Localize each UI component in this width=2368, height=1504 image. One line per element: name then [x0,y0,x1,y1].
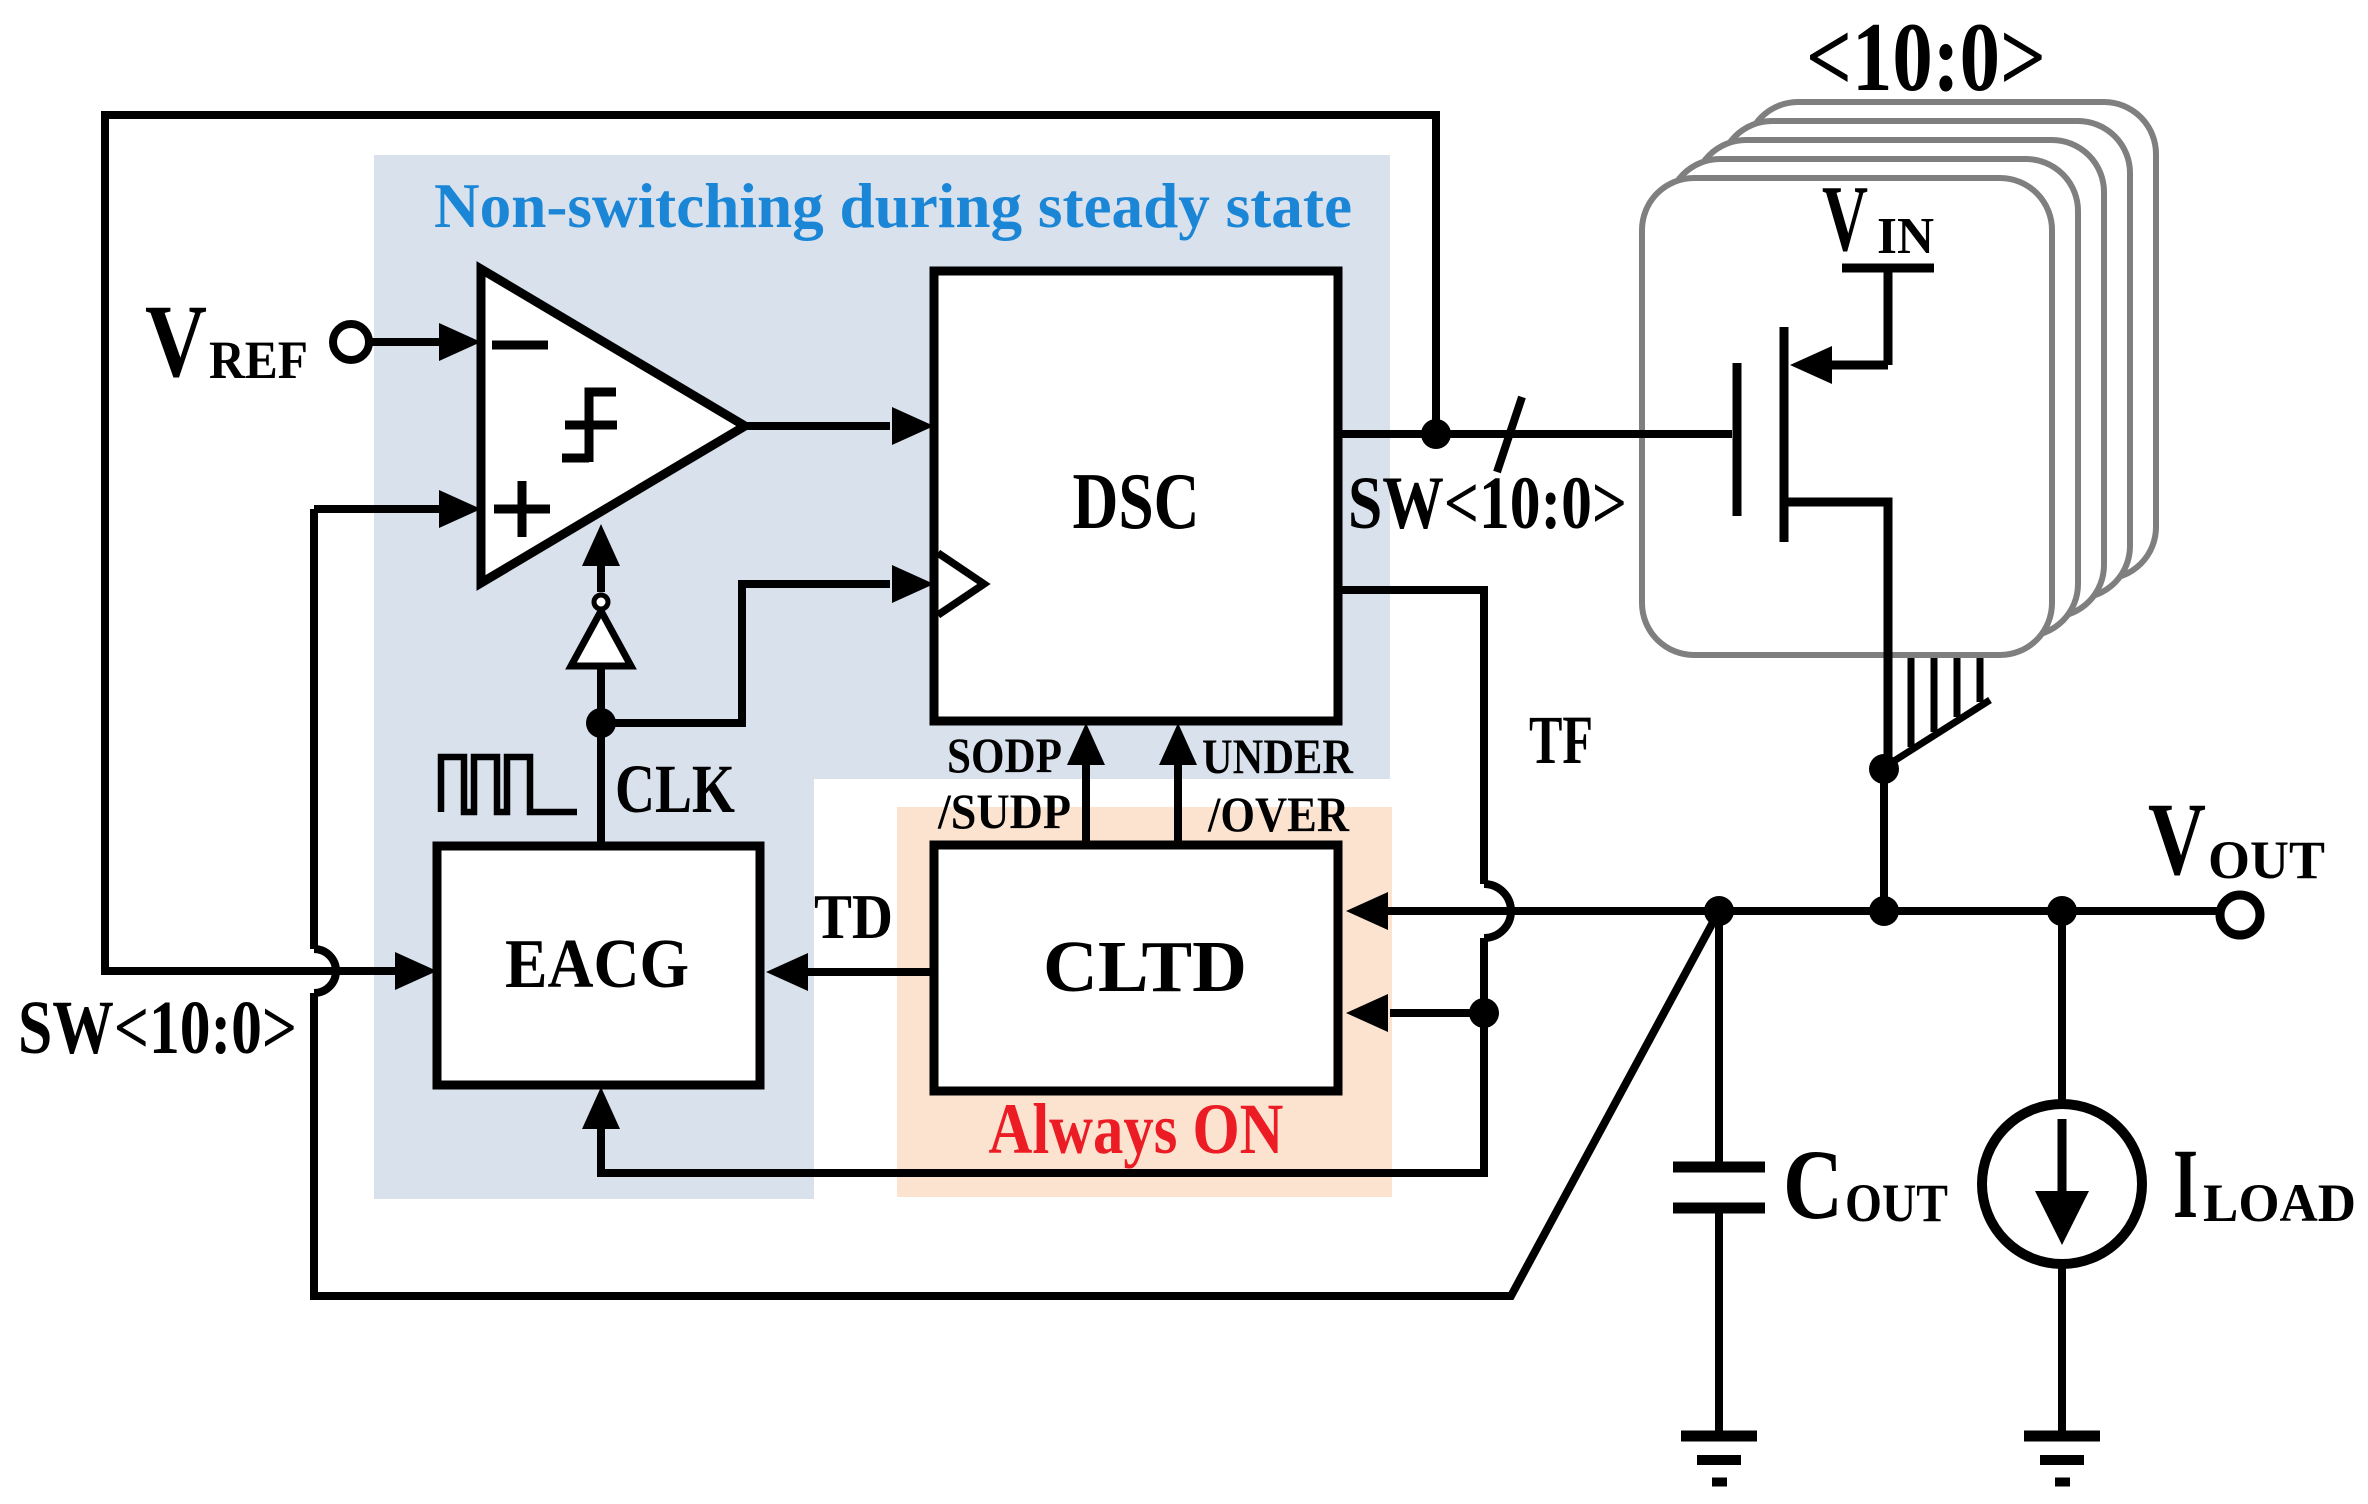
junction: CLK node [586,708,616,738]
bundle: stacked cell outputs [1883,658,1990,768]
svg-text:TD: TD [814,881,893,952]
svg-text:SW<10:0>: SW<10:0> [18,986,297,1070]
capacitor COUT [1673,911,1765,1431]
wire: SODP/SUDP from CLTD to DSC [1082,765,1090,845]
terminal: VREF input [333,324,369,360]
wire: clock to DSC clock pin [601,584,890,723]
svg-text:EACG: EACG [505,926,689,1003]
transistor source arrow [1790,346,1832,384]
svg-text:SODP: SODP [947,727,1062,783]
current source ILOAD [1982,911,2142,1431]
block CLTD [934,845,1338,1091]
shaded region: always-on (orange) [897,807,1392,1197]
wire: transistor output to VOUT [1880,765,1888,911]
wire: SW bus from DSC to power stack gate [1338,430,1732,438]
buffer: clock buffer into comparator [571,524,631,846]
plus input marker [494,481,550,537]
clock waveform symbol [441,757,577,812]
svg-text:REF: REF [209,330,308,390]
junction: VOUT/COUT node [1704,896,1734,926]
junction: SW node at DSC output [1421,419,1451,449]
ground (COUT) [1681,1436,1757,1482]
svg-text:CLK: CLK [615,751,735,827]
svg-text:Non-switching during steady st: Non-switching during steady state [434,171,1352,241]
svg-text:V: V [2148,782,2206,897]
wire: comparator plus input from sense line [314,505,440,513]
svg-text:/OVER: /OVER [1207,786,1350,842]
svg-text:Always ON: Always ON [989,1089,1284,1169]
wire: outer SW feedback loop from DSC output to EACG input [105,115,1436,971]
wire: VOUT sense line with hop over SW wire, bottom run, diagonal to VOUT node [314,509,1719,1296]
junction: ILOAD node [2047,896,2077,926]
power rail: VIN bar [1842,264,1934,273]
svg-text:SW<10:0>: SW<10:0> [1348,462,1627,545]
svg-text:OUT: OUT [2208,830,2325,890]
shaded region: non-switching (blue) [374,155,1390,1199]
block EACG [437,846,760,1085]
svg-text:LOAD: LOAD [2203,1173,2356,1233]
clock pin chevron on DSC [938,553,984,615]
svg-text:V: V [145,284,207,399]
junction: transistor output [1869,754,1899,784]
wire: UNDER/OVER from CLTD to DSC [1174,765,1182,845]
svg-text:/SUDP: /SUDP [937,783,1071,839]
svg-text:OUT: OUT [1845,1173,1948,1233]
label: Non-switching during steady state [434,171,1352,241]
power transistor array (stacked cells) [1642,102,2156,655]
wire: VREF to comparator minus input [371,338,440,346]
wire: TD from CLTD to EACG [808,968,931,976]
svg-text:I: I [2173,1128,2198,1239]
label: COUT [1783,1129,1948,1240]
label: ILOAD [2173,1128,2356,1239]
label: VIN [1822,167,1934,271]
wire: VOUT net horizontal [1388,907,2220,915]
svg-text:UNDER: UNDER [1202,728,1354,784]
hysteresis symbol [562,392,617,462]
svg-text:IN: IN [1877,208,1934,265]
svg-text:CLTD: CLTD [1043,926,1247,1007]
svg-text:DSC: DSC [1073,458,1200,546]
terminal: VOUT [2220,895,2260,935]
op-amp U1: clocked comparator [481,269,745,583]
bus slash marker [1497,397,1522,472]
block DSC [934,271,1338,721]
label: Always ON [989,1089,1284,1169]
ground (ILOAD) [2024,1436,2100,1482]
label: VREF [145,284,308,399]
junction: pass transistor output node [1869,896,1899,926]
svg-text:<10:0>: <10:0> [1806,3,2046,112]
junction: TF to CLTD lower input [1469,998,1499,1028]
svg-text:C: C [1783,1129,1843,1240]
minus input marker [492,341,548,350]
label: VOUT [2148,782,2325,897]
wire: comparator output to DSC [745,422,890,430]
arrowhead into EACG left [395,952,437,990]
transistor M1 (PMOS pass device) [1737,268,1888,765]
wire: TF from DSC to CLTD input and EACG bottom input [601,590,1511,1173]
svg-text:V: V [1822,167,1868,271]
svg-text:TF: TF [1529,702,1593,778]
